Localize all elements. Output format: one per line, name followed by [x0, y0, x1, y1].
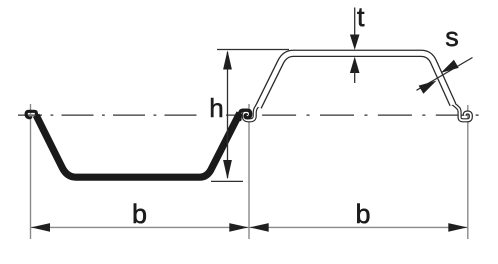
t arrowhead down	[350, 35, 360, 50]
svg-text:h: h	[209, 93, 223, 123]
extension line middle (b)	[248, 104, 250, 239]
t dimension line upper	[354, 8, 356, 48]
t dimension line lower stem	[354, 71, 356, 83]
s arrowhead upper (points to outer wall)	[441, 60, 459, 73]
h dimension line (vertical)	[227, 52, 229, 178]
h dimension bottom extension line	[211, 180, 243, 182]
white mask behind label h	[199, 94, 226, 119]
svg-text:b: b	[132, 199, 147, 229]
t arrowhead up	[350, 57, 360, 73]
centerline final dot	[476, 114, 479, 116]
svg-text:b: b	[355, 199, 370, 229]
left interlock hook of left profile	[26, 111, 36, 117]
extension line right (b)	[467, 105, 469, 239]
middle interlock hook of right profile (white core)	[244, 101, 261, 121]
right interlock hook of right profile (outline, black edges)	[452, 103, 471, 120]
arrowhead b right inner	[250, 223, 269, 232]
dimension line b right	[249, 226, 468, 228]
h dimension top extension line	[217, 49, 289, 51]
middle interlock hook of right profile (outline, black edges)	[244, 101, 261, 121]
centerline (neutral axis, dash-dot) left part	[18, 114, 197, 116]
arrowhead b right outer	[448, 223, 467, 232]
arrowhead b left inner	[229, 223, 248, 232]
h arrowhead up	[223, 50, 232, 69]
svg-text:s: s	[445, 22, 459, 52]
left sheet pile profile (solid black U-trough)	[36, 113, 240, 177]
s arrowhead lower (points to inner wall)	[419, 81, 437, 94]
middle interlock hook of left profile (black claw)	[240, 110, 251, 119]
svg-text:t: t	[357, 2, 365, 32]
h arrowhead down	[223, 160, 232, 179]
arrowhead b left outer	[31, 223, 50, 232]
centerline (neutral axis, dash-dot) right part	[204, 114, 473, 116]
s dimension line (diagonal)	[417, 58, 473, 91]
right interlock hook of right profile (white core)	[452, 103, 471, 120]
right sheet pile profile wall (outline S-profile)	[258, 53, 453, 107]
extension line left (b)	[30, 104, 32, 239]
dimension line b left	[31, 226, 250, 228]
